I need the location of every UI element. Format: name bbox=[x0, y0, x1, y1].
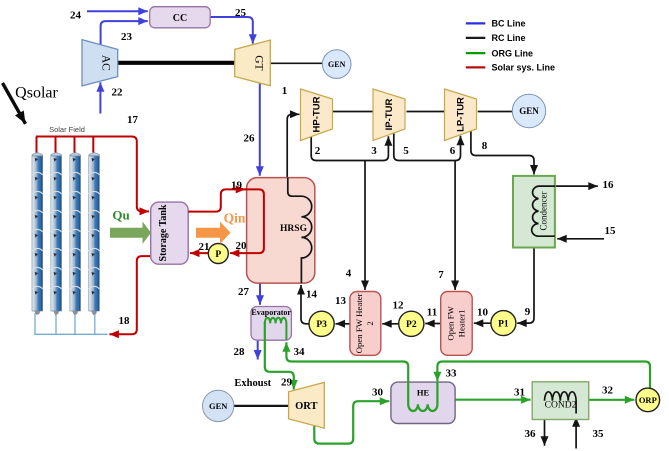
svg-text:GEN: GEN bbox=[328, 60, 346, 69]
svg-text:20: 20 bbox=[236, 240, 248, 252]
svg-text:BC Line: BC Line bbox=[492, 19, 526, 29]
svg-text:10: 10 bbox=[477, 307, 489, 319]
svg-text:ORT: ORT bbox=[295, 401, 317, 412]
svg-text:19: 19 bbox=[231, 180, 243, 192]
svg-text:32: 32 bbox=[602, 385, 614, 397]
svg-text:9: 9 bbox=[525, 306, 531, 318]
svg-text:P1: P1 bbox=[498, 320, 509, 330]
svg-text:Qsolar: Qsolar bbox=[15, 85, 58, 102]
svg-text:IP-TUR: IP-TUR bbox=[384, 99, 395, 131]
svg-text:27: 27 bbox=[238, 286, 250, 298]
svg-text:16: 16 bbox=[603, 179, 615, 191]
svg-text:Open FWHeater1: Open FWHeater1 bbox=[445, 305, 466, 340]
svg-text:GT: GT bbox=[253, 55, 265, 70]
svg-text:25: 25 bbox=[235, 7, 247, 19]
svg-text:28: 28 bbox=[234, 346, 246, 358]
svg-text:5: 5 bbox=[403, 145, 409, 157]
svg-text:RC Line: RC Line bbox=[492, 33, 526, 43]
svg-text:LP-TUR: LP-TUR bbox=[456, 97, 467, 132]
svg-text:7: 7 bbox=[438, 269, 444, 281]
svg-text:31: 31 bbox=[514, 387, 525, 399]
svg-text:P2: P2 bbox=[406, 320, 417, 330]
svg-text:Storage Tank: Storage Tank bbox=[158, 204, 169, 261]
svg-text:HE: HE bbox=[417, 387, 430, 397]
svg-text:14: 14 bbox=[306, 289, 318, 301]
svg-text:GEN: GEN bbox=[519, 106, 539, 116]
svg-text:P: P bbox=[215, 250, 221, 260]
svg-text:18: 18 bbox=[119, 315, 131, 327]
svg-text:P3: P3 bbox=[316, 320, 327, 330]
svg-text:26: 26 bbox=[244, 133, 256, 145]
svg-text:ORG Line: ORG Line bbox=[492, 48, 534, 58]
svg-text:AC: AC bbox=[100, 55, 112, 71]
svg-text:35: 35 bbox=[593, 428, 605, 440]
svg-text:Solar Field: Solar Field bbox=[49, 125, 85, 134]
svg-text:3: 3 bbox=[371, 145, 377, 157]
svg-text:13: 13 bbox=[335, 295, 347, 307]
svg-text:ORP: ORP bbox=[639, 395, 657, 405]
svg-text:29: 29 bbox=[281, 377, 293, 389]
svg-text:Condencer: Condencer bbox=[539, 192, 549, 231]
svg-text:22: 22 bbox=[112, 87, 124, 99]
svg-text:21: 21 bbox=[199, 241, 210, 253]
svg-text:11: 11 bbox=[427, 307, 437, 319]
svg-text:Qu: Qu bbox=[112, 208, 129, 223]
svg-text:CC: CC bbox=[173, 13, 187, 24]
svg-text:1: 1 bbox=[282, 85, 288, 97]
svg-text:COND2: COND2 bbox=[545, 401, 577, 411]
svg-text:8: 8 bbox=[482, 140, 488, 152]
svg-text:4: 4 bbox=[346, 268, 352, 280]
svg-text:6: 6 bbox=[450, 145, 456, 157]
svg-text:HP-TUR: HP-TUR bbox=[312, 96, 323, 132]
svg-text:2: 2 bbox=[315, 145, 321, 157]
svg-text:33: 33 bbox=[446, 368, 458, 380]
svg-text:17: 17 bbox=[127, 114, 139, 126]
svg-text:34: 34 bbox=[294, 346, 306, 358]
svg-text:12: 12 bbox=[393, 300, 405, 312]
svg-text:Evaporator: Evaporator bbox=[251, 308, 291, 317]
svg-text:GEN: GEN bbox=[209, 401, 228, 411]
svg-text:23: 23 bbox=[121, 31, 133, 43]
svg-text:24: 24 bbox=[70, 10, 82, 22]
svg-text:Qin: Qin bbox=[224, 211, 246, 226]
svg-text:36: 36 bbox=[525, 428, 537, 440]
svg-text:Exhoust: Exhoust bbox=[234, 378, 271, 389]
svg-text:15: 15 bbox=[605, 225, 617, 237]
svg-text:30: 30 bbox=[372, 387, 384, 399]
svg-text:Solar sys. Line: Solar sys. Line bbox=[492, 63, 556, 73]
svg-text:HRSG: HRSG bbox=[280, 224, 308, 234]
